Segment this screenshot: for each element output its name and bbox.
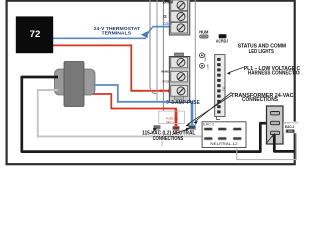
svg-text:TERMINALS: TERMINALS (102, 30, 132, 36)
svg-text:CONNECTIONS: CONNECTIONS (153, 136, 184, 142)
transformer T1 (55, 69, 96, 95)
pad SEC spare (154, 125, 161, 129)
wire grey vertical to fuse (162, 0, 164, 111)
blue arrow to thermostat wire (141, 31, 148, 38)
frame furnace outline (7, 1, 295, 165)
thermostat box 72 (16, 16, 53, 53)
svg-text:CONNECTIONS: CONNECTIONS (242, 97, 278, 103)
svg-text:W/W1: W/W1 (161, 70, 170, 74)
blue arrowhead on secondary (167, 100, 172, 104)
pad SEC red (173, 126, 180, 129)
fuse box (159, 111, 185, 123)
board edge line (194, 0, 196, 130)
label EAC-1 (283, 122, 299, 134)
svg-text:EAC-1: EAC-1 (285, 125, 294, 129)
screw R (177, 87, 185, 95)
leader arrow to PL1 (229, 67, 244, 73)
pad SEC blue (189, 125, 196, 129)
wire red transformer secondary (93, 94, 176, 126)
wire black EAC-1 bottom to frame (274, 134, 294, 151)
LED status (200, 53, 205, 58)
svg-text:COMM: COMM (208, 63, 210, 70)
humidifier terminal (200, 35, 208, 38)
svg-text:STATUS: STATUS (204, 53, 207, 61)
LED comm (200, 63, 205, 68)
arrow to EAC-1 bottom slot (266, 135, 274, 144)
svg-text:EAC-2: EAC-2 (203, 123, 214, 127)
screw W/W1 (177, 58, 185, 66)
svg-text:Y/Y2: Y/Y2 (162, 79, 169, 83)
svg-text:LED LIGHTS: LED LIGHTS (249, 49, 275, 55)
leader tick below neutral label (161, 141, 163, 147)
wire blue C/24V (153, 26, 179, 28)
svg-text:G: G (163, 14, 167, 19)
screw Y/Y2 (177, 73, 185, 81)
block EAC-1 (267, 106, 284, 144)
leader arrows to transformer pads (195, 92, 231, 121)
wire grey neutral (38, 90, 202, 137)
wire blue transformer secondary (93, 85, 192, 126)
wire thermostat blue 24V (53, 37, 146, 39)
screw G (177, 13, 185, 21)
leader arrows from neutral label (151, 130, 156, 134)
wire grey neutral L2 to right (237, 121, 296, 160)
svg-text:DHUM: DHUM (163, 0, 173, 4)
connector PL1 (215, 55, 225, 117)
svg-text:C/24V: C/24V (163, 22, 173, 26)
lower terminal block top cap (175, 53, 184, 56)
block EAC-2 neutral-L2 (202, 122, 246, 148)
svg-text:HARNESS CONNECTIONS: HARNESS CONNECTIONS (248, 71, 300, 77)
wire grey vertical mid (156, 0, 158, 101)
lower terminal block bottom cap (175, 96, 184, 99)
svg-text:72: 72 (30, 29, 41, 40)
svg-text:PL1: PL1 (221, 86, 225, 91)
lower terminal block body (169, 57, 190, 103)
ACRDJ component (219, 34, 227, 38)
red arrowhead to R terminal (168, 89, 172, 93)
svg-text:R: R (160, 88, 163, 93)
svg-text:SEC 3-A: SEC 3-A (166, 120, 177, 124)
screw C/24V (177, 24, 185, 32)
svg-text:HUM: HUM (199, 29, 209, 34)
svg-text:ACRDJ: ACRDJ (216, 38, 229, 43)
wire black 115VAC hot (22, 77, 271, 152)
upper terminal block body (169, 0, 190, 35)
svg-text:NEUTRAL-L2: NEUTRAL-L2 (210, 141, 238, 146)
wire thermostat red R (53, 45, 169, 90)
screw DHUM (177, 1, 185, 9)
svg-text:3 AMP FUSE: 3 AMP FUSE (171, 100, 200, 106)
wire grey vertical with hook (150, 0, 156, 94)
